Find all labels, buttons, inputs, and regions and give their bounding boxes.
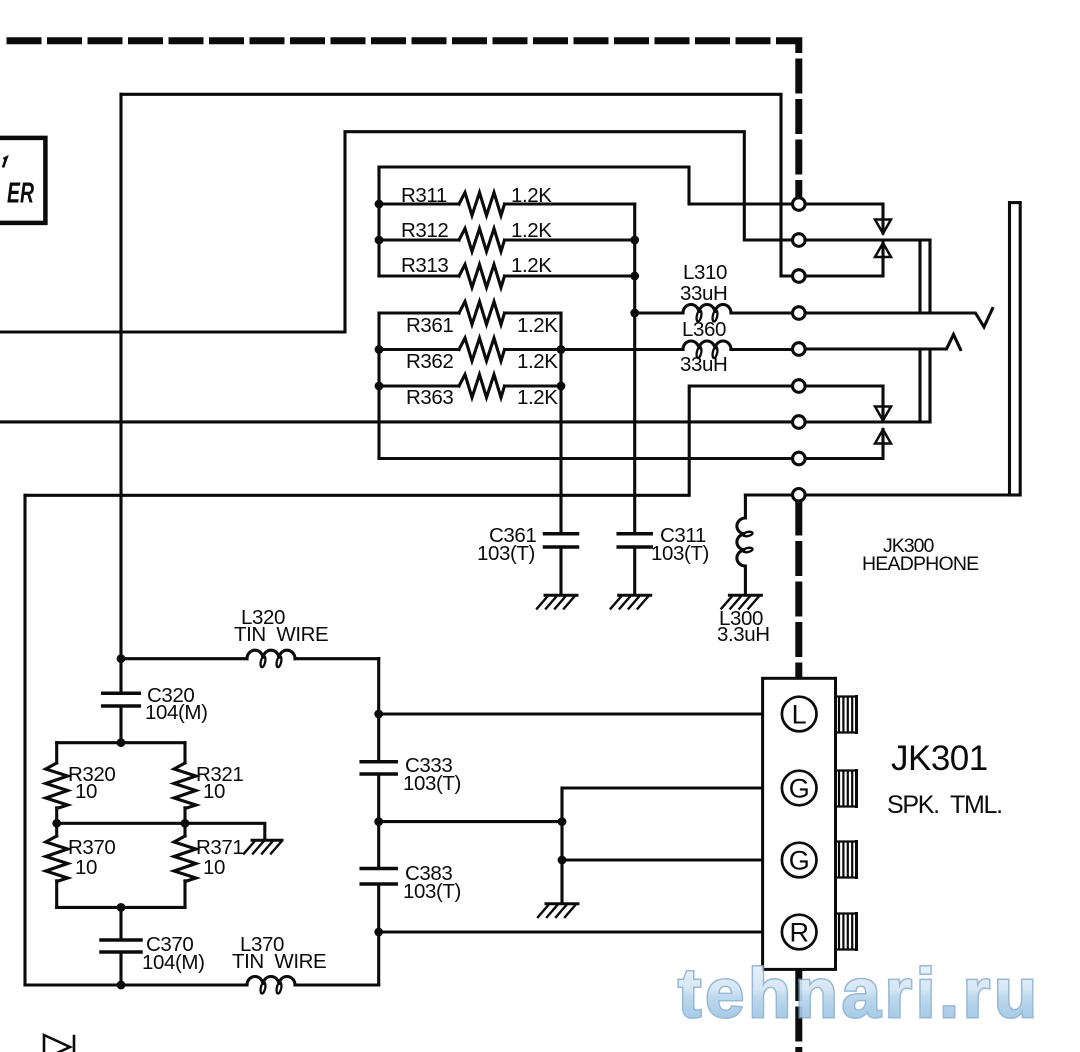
wire: R320/R321 top bus: [57, 741, 185, 744]
headphone plug bar: [1010, 203, 1021, 495]
inductor L320: [247, 650, 295, 659]
wire: R370/R371 bottom bus: [57, 906, 185, 909]
svg-text:33uH: 33uH: [680, 282, 727, 305]
resistor R370: [46, 823, 68, 907]
wire: R terminal feed: [379, 930, 782, 933]
wire: bottom return line with L370: [25, 983, 379, 986]
wire: left vertical of R361-R363 box: [377, 313, 380, 459]
wire: jack pin6 to NC arrow: [806, 386, 883, 420]
wire: L320 row: [121, 657, 379, 660]
ground below x562 column: [538, 904, 578, 917]
wire: jack pin7 right stub: [806, 420, 930, 423]
wire: L310 row to jack pin4: [635, 311, 792, 314]
solder lug 1: [836, 697, 857, 733]
wire: L terminal feed: [379, 712, 782, 715]
wire: ground column x562: [560, 788, 563, 904]
resistor R311: [379, 193, 635, 216]
svg-text:ER: ER: [7, 178, 34, 210]
wire: R-box top feed to jack pin1: [379, 167, 792, 204]
svg-text:R361: R361: [406, 314, 453, 337]
wire: mid tie to ground column: [379, 820, 562, 823]
contact arrow down (upper): [875, 220, 891, 234]
partial symbol bottom-left: [44, 1035, 74, 1052]
resistor R320: [46, 743, 68, 824]
wire: left vertical of R311-R313 box: [377, 167, 380, 276]
capacitor C333: [361, 762, 396, 774]
solder lug 3: [836, 842, 857, 878]
connector JK301 body: [763, 678, 836, 969]
svg-text:1.2K: 1.2K: [517, 386, 558, 409]
svg-text:103(T): 103(T): [403, 880, 461, 903]
svg-text:L: L: [792, 700, 807, 730]
block label box (cut off at left edge): [0, 138, 45, 223]
svg-text:HEADPHONE: HEADPHONE: [862, 553, 979, 575]
resistor R313: [379, 265, 635, 288]
svg-text:1.2K: 1.2K: [511, 254, 552, 277]
capacitor C311: [633, 547, 636, 595]
solder lug 2: [836, 771, 857, 807]
capacitor C370: [119, 907, 122, 985]
inductor L370: [247, 977, 295, 986]
capacitor C320: [119, 659, 122, 743]
wire: L360 row to jack pin5: [561, 348, 792, 351]
wire: pin4 row switch contact (V break): [806, 309, 993, 328]
solder lug 4: [836, 914, 857, 950]
ground below C311: [611, 595, 651, 608]
contact arrow down (lower): [875, 407, 891, 421]
wire: G terminal feed 1: [562, 786, 782, 789]
wire: jack pin3 to NC arrow: [806, 243, 883, 276]
wire: left loop feed to jack pin6: [25, 386, 792, 495]
wire: x634.7 vertical down to C311: [633, 313, 636, 534]
wire: speaker column x378.7: [377, 659, 380, 985]
wire: pin5 row switch contact (A break): [806, 335, 961, 350]
wire: jack pin9 row to plug bar: [745, 493, 1009, 496]
ground at R371 row: [244, 840, 282, 853]
svg-text:33uH: 33uH: [680, 353, 727, 376]
svg-text:R313: R313: [401, 254, 448, 277]
svg-text:R312: R312: [401, 219, 448, 242]
wire: junction vertical x561 (R361-363 outputs) down to C361: [559, 313, 562, 534]
svg-text:103(T): 103(T): [477, 542, 535, 565]
resistor R371: [174, 823, 196, 907]
svg-text:tehnari.ru: tehnari.ru: [678, 954, 1041, 1032]
resistor R321: [174, 743, 196, 824]
ground below C361: [537, 595, 577, 608]
resistor R362: [379, 338, 561, 361]
wire: feed to jack pin3 (y94 line): [121, 94, 792, 276]
terminal R: [782, 915, 817, 950]
resistor R361: [379, 302, 561, 325]
svg-text:104(M): 104(M): [142, 951, 205, 974]
wire: thick dashed shield boundary top/right: [0, 41, 799, 1052]
jack contact pins 1-9 (circles): [793, 198, 806, 501]
resistor R312: [379, 229, 635, 252]
capacitor C361: [559, 547, 562, 595]
svg-text:L360: L360: [682, 318, 726, 341]
wire: row to jack pin7: [0, 420, 792, 423]
wire: row to jack pin8 (R-box bottom): [379, 457, 792, 460]
svg-text:SPK. TML.: SPK. TML.: [887, 791, 1002, 819]
inductor L310: [683, 305, 731, 314]
terminal G: [782, 843, 817, 878]
svg-text:R311: R311: [401, 184, 447, 207]
slider bar pair lower: [920, 349, 930, 422]
svg-text:103(T): 103(T): [403, 772, 461, 795]
wire: far-left vertical x25: [23, 495, 26, 985]
svg-text:G: G: [789, 846, 810, 876]
wire: G terminal feed 2: [562, 858, 782, 861]
svg-text:1.2K: 1.2K: [511, 219, 552, 242]
svg-text:1.2K: 1.2K: [511, 184, 552, 207]
wire: long left vertical x121: [119, 94, 122, 658]
wire: junction vertical x634.7 (R311-313 outputs): [633, 204, 636, 313]
contact arrow up (upper): [875, 243, 891, 257]
svg-text:1.2K: 1.2K: [517, 350, 558, 373]
svg-text:L310: L310: [683, 261, 727, 284]
svg-text:10: 10: [203, 780, 225, 803]
inductor L300 (vertical): [737, 495, 746, 595]
contact arrow up (lower): [875, 430, 891, 444]
svg-text:R362: R362: [406, 350, 453, 373]
ground below L300: [721, 595, 761, 608]
svg-text:104(M): 104(M): [145, 701, 208, 724]
svg-text:10: 10: [75, 780, 97, 803]
svg-text:10: 10: [75, 856, 97, 879]
svg-text:JK301: JK301: [891, 739, 988, 778]
capacitor C383: [361, 869, 396, 885]
slider bar pair upper: [920, 240, 930, 313]
svg-text:G: G: [789, 774, 810, 804]
wire: feed to jack pin2 via x345 vertical: [0, 132, 792, 332]
wire: mid junction row to ground: [57, 823, 265, 840]
svg-text:TIN WIRE: TIN WIRE: [232, 950, 326, 973]
terminal G: [782, 771, 817, 806]
svg-text:1.2K: 1.2K: [517, 314, 558, 337]
svg-text:3.3uH: 3.3uH: [717, 623, 770, 646]
terminal L: [782, 697, 817, 732]
resistor R363: [379, 375, 561, 398]
inductor L360: [683, 341, 731, 349]
svg-text:103(T): 103(T): [651, 542, 709, 565]
wire: jack pin8 to NC arrow: [806, 430, 883, 459]
wire: jack pin1 to NC arrow: [806, 204, 883, 233]
svg-text:R: R: [789, 918, 809, 948]
svg-text:R363: R363: [406, 386, 453, 409]
wire: jack pin2 to slider bars: [806, 238, 930, 241]
svg-text:TIN WIRE: TIN WIRE: [234, 623, 328, 646]
svg-text:10: 10: [203, 856, 225, 879]
